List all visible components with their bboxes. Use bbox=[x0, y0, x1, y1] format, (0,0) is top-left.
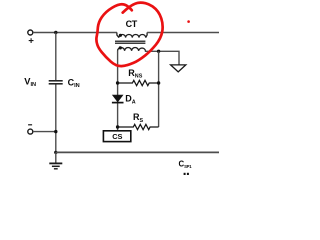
wire ground stem bbox=[55, 152, 57, 163]
capacitor CIN bbox=[49, 80, 63, 82]
resistor RNS bbox=[118, 80, 159, 85]
node ground junction bbox=[54, 151, 57, 154]
ground bbox=[49, 163, 62, 168]
wire bottom rail bbox=[56, 151, 219, 153]
ground (triangle) bbox=[171, 65, 186, 72]
svg-text:CIN: CIN bbox=[68, 78, 80, 90]
transformer CT secondary winding bbox=[118, 47, 146, 50]
secondary phase dot bbox=[119, 46, 122, 49]
wire top left bbox=[33, 32, 117, 34]
diode DA bbox=[112, 95, 124, 103]
svg-text:VIN: VIN bbox=[24, 76, 36, 88]
svg-text:CS: CS bbox=[112, 132, 122, 141]
svg-text:RS: RS bbox=[133, 112, 144, 124]
capacitor top marks (cropped) bbox=[184, 173, 186, 175]
wire left rail upper bbox=[55, 33, 57, 81]
primary phase dot bbox=[119, 34, 122, 37]
transformer core bbox=[115, 41, 145, 43]
node RNS left bbox=[116, 81, 119, 84]
svg-text:CT: CT bbox=[126, 19, 138, 29]
red dot mark bbox=[187, 20, 190, 23]
wire secondary right to ground bbox=[146, 51, 180, 65]
wire left branch (secondary left rail) bbox=[117, 51, 119, 131]
plus sign bbox=[29, 38, 34, 43]
resistor RS bbox=[118, 124, 159, 129]
wire left rail lower bbox=[55, 85, 57, 153]
wire right branch rail bbox=[158, 51, 160, 127]
minus sign bbox=[28, 124, 32, 126]
wire bottom-left terminal bbox=[33, 131, 56, 133]
bottom input terminal (-) bbox=[28, 129, 33, 134]
node RNS right bbox=[157, 81, 160, 84]
node secondary-right junction bbox=[157, 50, 160, 53]
top input terminal (+) bbox=[28, 30, 33, 35]
red annotation loop around CT bbox=[96, 3, 162, 66]
wire top right bbox=[147, 32, 219, 34]
CS box bbox=[103, 131, 130, 142]
svg-text:DA: DA bbox=[125, 94, 136, 106]
transformer CT primary winding bbox=[117, 33, 147, 38]
svg-text:CSP1: CSP1 bbox=[179, 160, 193, 169]
node RS left bbox=[116, 125, 119, 128]
node minus junction bbox=[54, 130, 57, 133]
node input junction bbox=[54, 31, 57, 34]
svg-text:RNS: RNS bbox=[128, 68, 142, 80]
